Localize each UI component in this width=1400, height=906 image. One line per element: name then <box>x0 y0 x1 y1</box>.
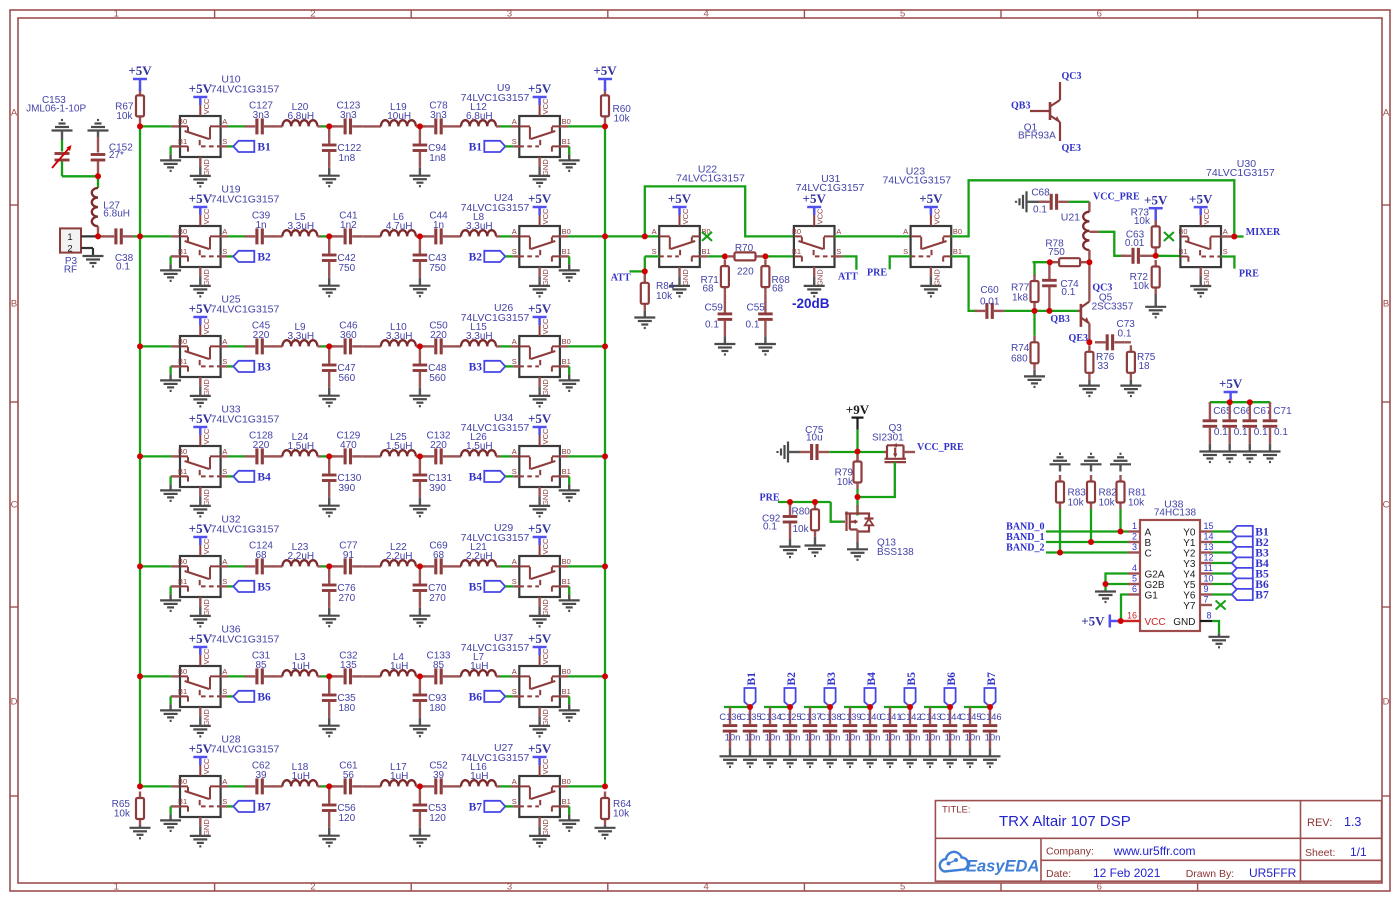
svg-text:2.2uH: 2.2uH <box>386 551 413 562</box>
svg-text:74LVC1G3157: 74LVC1G3157 <box>676 173 745 185</box>
svg-text:680: 680 <box>1011 354 1028 365</box>
svg-text:B4: B4 <box>469 472 483 484</box>
svg-text:QB3: QB3 <box>1050 314 1069 325</box>
svg-text:QE3: QE3 <box>1062 143 1081 154</box>
svg-text:Y3: Y3 <box>1183 559 1196 570</box>
svg-text:www.ur5ffr.com: www.ur5ffr.com <box>1113 844 1196 858</box>
svg-text:10k: 10k <box>793 524 810 535</box>
svg-text:10n: 10n <box>745 732 761 743</box>
svg-text:D: D <box>1383 697 1390 708</box>
svg-text:BAND_2: BAND_2 <box>1006 543 1044 554</box>
svg-text:1uH: 1uH <box>390 661 408 672</box>
svg-text:D: D <box>11 697 18 708</box>
svg-text:56: 56 <box>343 770 355 781</box>
svg-text:2: 2 <box>310 9 315 20</box>
svg-text:Y5: Y5 <box>1183 580 1196 591</box>
svg-text:1n8: 1n8 <box>339 153 356 164</box>
svg-text:8: 8 <box>1207 611 1212 621</box>
svg-text:74LVC1G3157: 74LVC1G3157 <box>211 194 280 206</box>
svg-text:74LVC1G3157: 74LVC1G3157 <box>461 92 530 104</box>
svg-text:6.8uH: 6.8uH <box>287 111 314 122</box>
svg-text:C134: C134 <box>759 712 781 722</box>
svg-text:C142: C142 <box>899 712 921 722</box>
svg-text:B5: B5 <box>469 582 483 594</box>
svg-text:0.01: 0.01 <box>1125 238 1145 249</box>
svg-text:PRE: PRE <box>1239 269 1259 280</box>
svg-text:B1: B1 <box>469 142 483 154</box>
svg-text:10k: 10k <box>1133 281 1150 292</box>
svg-text:91: 91 <box>343 550 355 561</box>
svg-text:10n: 10n <box>945 732 961 743</box>
svg-text:-20dB: -20dB <box>792 296 830 311</box>
svg-text:10k: 10k <box>116 111 133 122</box>
svg-text:10n: 10n <box>865 732 881 743</box>
svg-text:120: 120 <box>429 813 446 824</box>
svg-text:220: 220 <box>253 440 270 451</box>
svg-text:BAND_1: BAND_1 <box>1006 532 1044 543</box>
svg-text:BAND_0: BAND_0 <box>1006 522 1044 533</box>
svg-text:Y2: Y2 <box>1183 548 1196 559</box>
svg-text:10k: 10k <box>114 809 131 820</box>
svg-text:Date:: Date: <box>1046 868 1071 880</box>
svg-text:270: 270 <box>429 593 446 604</box>
svg-text:180: 180 <box>429 703 446 714</box>
svg-text:B7: B7 <box>1255 590 1269 602</box>
svg-text:6: 6 <box>1097 9 1102 20</box>
svg-text:0.1: 0.1 <box>1254 427 1268 438</box>
svg-text:6: 6 <box>1132 584 1137 594</box>
svg-text:18: 18 <box>1139 361 1151 372</box>
svg-text:C140: C140 <box>859 712 881 722</box>
svg-text:39: 39 <box>433 770 445 781</box>
svg-text:74HC138: 74HC138 <box>1154 508 1197 519</box>
svg-text:74LVC1G3157: 74LVC1G3157 <box>882 175 951 187</box>
svg-text:0.1: 0.1 <box>763 522 777 533</box>
svg-text:+9V: +9V <box>846 402 870 417</box>
svg-text:SI2301: SI2301 <box>872 433 904 444</box>
svg-text:7: 7 <box>1204 595 1209 605</box>
svg-text:10n: 10n <box>885 732 901 743</box>
svg-text:33: 33 <box>1098 361 1110 372</box>
svg-text:1: 1 <box>114 882 119 893</box>
svg-text:C60: C60 <box>980 285 999 296</box>
svg-text:10n: 10n <box>725 732 741 743</box>
svg-text:74LVC1G3157: 74LVC1G3157 <box>461 752 530 764</box>
svg-text:B4: B4 <box>257 472 271 484</box>
svg-text:39: 39 <box>255 770 267 781</box>
svg-text:74LVC1G3157: 74LVC1G3157 <box>461 202 530 214</box>
svg-text:10uH: 10uH <box>387 111 411 122</box>
svg-text:220: 220 <box>430 440 447 451</box>
svg-text:1k8: 1k8 <box>1012 293 1029 304</box>
svg-text:15: 15 <box>1204 521 1214 531</box>
svg-text:1.3: 1.3 <box>1344 815 1361 829</box>
svg-text:10k: 10k <box>1134 216 1151 227</box>
svg-text:68: 68 <box>703 284 715 295</box>
svg-text:1n8: 1n8 <box>429 153 446 164</box>
svg-text:R80: R80 <box>792 506 811 517</box>
svg-text:390: 390 <box>339 483 356 494</box>
svg-text:4: 4 <box>703 882 708 893</box>
svg-text:3n3: 3n3 <box>340 110 357 121</box>
svg-text:RF: RF <box>64 265 77 276</box>
svg-text:QB3: QB3 <box>1011 101 1030 112</box>
svg-text:10k: 10k <box>614 113 631 124</box>
svg-text:Y4: Y4 <box>1183 569 1196 580</box>
svg-text:74LVC1G3157: 74LVC1G3157 <box>211 524 280 536</box>
svg-text:C136: C136 <box>719 712 741 722</box>
svg-text:6.8uH: 6.8uH <box>103 208 130 219</box>
svg-text:G2B: G2B <box>1145 580 1165 591</box>
svg-text:10: 10 <box>1204 574 1214 584</box>
svg-text:10n: 10n <box>765 732 781 743</box>
svg-text:C: C <box>1145 548 1152 559</box>
svg-text:B3: B3 <box>257 362 271 374</box>
svg-text:74LVC1G3157: 74LVC1G3157 <box>461 642 530 654</box>
svg-text:3n3: 3n3 <box>253 110 270 121</box>
svg-text:0.1: 0.1 <box>116 262 130 273</box>
svg-text:74LVC1G3157: 74LVC1G3157 <box>211 84 280 96</box>
svg-text:1: 1 <box>114 9 119 20</box>
svg-text:750: 750 <box>429 263 446 274</box>
svg-text:Company:: Company: <box>1046 845 1094 857</box>
svg-text:QE3: QE3 <box>1069 333 1088 344</box>
svg-text:1uH: 1uH <box>470 771 488 782</box>
svg-text:B: B <box>1383 299 1389 310</box>
svg-text:1.5uH: 1.5uH <box>466 441 493 452</box>
svg-text:390: 390 <box>429 483 446 494</box>
svg-text:0.1: 0.1 <box>705 320 719 331</box>
svg-text:1: 1 <box>1132 521 1137 531</box>
svg-text:1: 1 <box>67 232 72 243</box>
svg-text:3n3: 3n3 <box>430 110 447 121</box>
svg-text:68: 68 <box>433 550 445 561</box>
svg-text:TITLE:: TITLE: <box>942 805 971 816</box>
svg-text:Y0: Y0 <box>1183 527 1196 538</box>
svg-text:VCC_PRE: VCC_PRE <box>917 442 964 453</box>
svg-text:B5: B5 <box>257 582 271 594</box>
svg-text:C55: C55 <box>747 303 766 314</box>
svg-text:A: A <box>1145 527 1152 538</box>
svg-text:PRE: PRE <box>867 268 887 279</box>
svg-text:2: 2 <box>67 243 72 254</box>
svg-text:0.1: 0.1 <box>1214 427 1228 438</box>
svg-text:220: 220 <box>737 266 754 277</box>
svg-text:C145: C145 <box>959 712 981 722</box>
svg-text:C139: C139 <box>839 712 861 722</box>
svg-text:27*: 27* <box>109 150 124 161</box>
svg-text:REV:: REV: <box>1307 817 1332 829</box>
svg-text:1uH: 1uH <box>292 661 310 672</box>
svg-text:74LVC1G3157: 74LVC1G3157 <box>211 634 280 646</box>
svg-text:B2: B2 <box>257 252 271 264</box>
svg-text:10n: 10n <box>905 732 921 743</box>
svg-text:B1: B1 <box>746 672 758 686</box>
svg-text:BSS138: BSS138 <box>877 547 914 558</box>
svg-text:0.1: 0.1 <box>1033 204 1047 215</box>
svg-text:10n: 10n <box>965 732 981 743</box>
svg-text:3.3uH: 3.3uH <box>386 331 413 342</box>
svg-text:3.3uH: 3.3uH <box>466 221 493 232</box>
svg-text:0.1: 0.1 <box>1061 287 1075 298</box>
svg-text:B6: B6 <box>257 692 271 704</box>
svg-text:C137: C137 <box>799 712 821 722</box>
svg-text:C125: C125 <box>779 712 801 722</box>
svg-text:C146: C146 <box>979 712 1001 722</box>
svg-text:12: 12 <box>1204 553 1214 563</box>
svg-text:1n: 1n <box>433 220 444 231</box>
svg-text:220: 220 <box>430 330 447 341</box>
svg-text:TRX Altair 107 DSP: TRX Altair 107 DSP <box>999 813 1131 830</box>
svg-text:4.7uH: 4.7uH <box>386 221 413 232</box>
svg-text:3.3uH: 3.3uH <box>287 331 314 342</box>
svg-text:0.1: 0.1 <box>746 320 760 331</box>
svg-text:10n: 10n <box>925 732 941 743</box>
svg-text:74LVC1G3157: 74LVC1G3157 <box>461 312 530 324</box>
svg-text:UR5FFR: UR5FFR <box>1249 866 1297 880</box>
svg-text:120: 120 <box>339 813 356 824</box>
svg-text:3.3uH: 3.3uH <box>287 221 314 232</box>
svg-text:B3: B3 <box>826 672 838 686</box>
svg-text:10n: 10n <box>785 732 801 743</box>
svg-text:560: 560 <box>339 373 356 384</box>
svg-text:10k: 10k <box>613 809 630 820</box>
svg-text:74LVC1G3157: 74LVC1G3157 <box>211 744 280 756</box>
svg-text:B3: B3 <box>469 362 483 374</box>
svg-text:EasyEDA: EasyEDA <box>966 858 1039 876</box>
svg-text:10u: 10u <box>806 433 823 444</box>
svg-text:9: 9 <box>1204 584 1209 594</box>
svg-text:14: 14 <box>1204 532 1214 542</box>
svg-text:68: 68 <box>772 284 784 295</box>
svg-text:74LVC1G3157: 74LVC1G3157 <box>211 414 280 426</box>
svg-text:5: 5 <box>900 882 905 893</box>
svg-text:1uH: 1uH <box>292 771 310 782</box>
svg-text:A: A <box>1383 108 1390 119</box>
svg-text:10k: 10k <box>837 477 854 488</box>
svg-text:B6: B6 <box>469 692 483 704</box>
svg-text:0.1: 0.1 <box>1274 427 1288 438</box>
svg-text:JML06-1-10P: JML06-1-10P <box>26 104 86 115</box>
svg-text:Drawn By:: Drawn By: <box>1186 868 1234 880</box>
svg-text:B: B <box>1145 538 1152 549</box>
svg-text:10k: 10k <box>1128 497 1145 508</box>
svg-text:4: 4 <box>703 9 708 20</box>
svg-text:Y7: Y7 <box>1183 601 1196 612</box>
svg-text:A: A <box>11 108 18 119</box>
svg-text:C141: C141 <box>879 712 901 722</box>
svg-text:0.1: 0.1 <box>1118 328 1132 339</box>
svg-text:Sheet:: Sheet: <box>1305 847 1335 859</box>
svg-text:MIXER: MIXER <box>1246 227 1281 238</box>
svg-text:360: 360 <box>340 330 357 341</box>
svg-text:85: 85 <box>433 660 445 671</box>
svg-text:B7: B7 <box>986 672 998 686</box>
svg-text:6: 6 <box>1097 882 1102 893</box>
svg-text:C59: C59 <box>705 303 724 314</box>
svg-text:11: 11 <box>1204 563 1213 573</box>
svg-text:85: 85 <box>255 660 267 671</box>
svg-text:R74: R74 <box>1011 343 1030 354</box>
svg-text:B5: B5 <box>906 672 918 686</box>
svg-text:1.5uH: 1.5uH <box>287 441 314 452</box>
svg-text:470: 470 <box>340 440 357 451</box>
svg-text:750: 750 <box>1048 247 1065 258</box>
svg-text:B: B <box>11 299 17 310</box>
svg-text:74LVC1G3157: 74LVC1G3157 <box>211 304 280 316</box>
svg-text:12 Feb 2021: 12 Feb 2021 <box>1093 866 1161 880</box>
svg-text:10n: 10n <box>845 732 861 743</box>
svg-text:2.2uH: 2.2uH <box>466 551 493 562</box>
svg-text:C71: C71 <box>1273 406 1292 417</box>
svg-text:2SC3357: 2SC3357 <box>1092 302 1134 313</box>
svg-text:C135: C135 <box>739 712 761 722</box>
svg-text:10k: 10k <box>1099 497 1116 508</box>
svg-text:220: 220 <box>253 330 270 341</box>
svg-text:+5V: +5V <box>1081 613 1105 628</box>
svg-text:C: C <box>11 500 18 511</box>
svg-text:C68: C68 <box>1031 187 1050 198</box>
svg-text:3: 3 <box>507 882 512 893</box>
svg-text:74LVC1G3157: 74LVC1G3157 <box>1206 167 1275 179</box>
svg-text:2.2uH: 2.2uH <box>287 551 314 562</box>
svg-text:B2: B2 <box>469 252 483 264</box>
svg-text:74LVC1G3157: 74LVC1G3157 <box>461 422 530 434</box>
svg-text:B7: B7 <box>469 802 483 814</box>
svg-text:10n: 10n <box>985 732 1001 743</box>
svg-text:3: 3 <box>507 9 512 20</box>
svg-text:C138: C138 <box>819 712 841 722</box>
svg-text:U21: U21 <box>1061 212 1080 224</box>
svg-text:Y6: Y6 <box>1183 590 1196 601</box>
svg-text:10n: 10n <box>805 732 821 743</box>
svg-text:135: 135 <box>340 660 357 671</box>
svg-text:C144: C144 <box>939 712 961 722</box>
svg-text:750: 750 <box>339 263 356 274</box>
svg-text:0.1: 0.1 <box>1234 427 1248 438</box>
svg-text:560: 560 <box>429 373 446 384</box>
svg-text:Y1: Y1 <box>1183 538 1196 549</box>
svg-text:BFR93A: BFR93A <box>1018 131 1056 142</box>
svg-text:10n: 10n <box>825 732 841 743</box>
svg-text:B7: B7 <box>257 802 271 814</box>
svg-text:VCC_PRE: VCC_PRE <box>1093 192 1140 203</box>
svg-text:270: 270 <box>339 593 356 604</box>
svg-text:C143: C143 <box>919 712 941 722</box>
svg-text:74LVC1G3157: 74LVC1G3157 <box>461 532 530 544</box>
svg-text:B6: B6 <box>946 672 958 686</box>
svg-text:ATT: ATT <box>611 273 631 284</box>
svg-text:3.3uH: 3.3uH <box>466 331 493 342</box>
svg-text:68: 68 <box>255 550 267 561</box>
svg-text:1uH: 1uH <box>470 661 488 672</box>
svg-text:10k: 10k <box>1068 497 1085 508</box>
svg-text:5: 5 <box>900 9 905 20</box>
svg-text:PRE: PRE <box>760 493 780 504</box>
svg-text:3: 3 <box>1132 542 1137 552</box>
svg-text:16: 16 <box>1127 611 1137 621</box>
svg-text:180: 180 <box>339 703 356 714</box>
svg-text:B2: B2 <box>786 672 798 686</box>
svg-text:1.5uH: 1.5uH <box>386 441 413 452</box>
svg-text:GND: GND <box>1173 617 1195 628</box>
svg-text:2: 2 <box>310 882 315 893</box>
svg-text:1/1: 1/1 <box>1350 845 1367 859</box>
svg-text:6.8uH: 6.8uH <box>466 111 493 122</box>
svg-text:B1: B1 <box>257 142 271 154</box>
svg-text:R70: R70 <box>735 243 754 254</box>
svg-text:ATT: ATT <box>838 272 858 283</box>
svg-text:0.01: 0.01 <box>980 296 1000 307</box>
svg-text:VCC: VCC <box>1145 617 1166 628</box>
svg-text:10k: 10k <box>656 291 673 302</box>
svg-text:QC3: QC3 <box>1062 71 1082 82</box>
svg-text:G1: G1 <box>1145 590 1159 601</box>
svg-text:5: 5 <box>1132 574 1137 584</box>
svg-text:2: 2 <box>1132 532 1137 542</box>
svg-text:B4: B4 <box>866 672 878 686</box>
svg-text:1n2: 1n2 <box>340 220 357 231</box>
svg-text:1uH: 1uH <box>390 771 408 782</box>
svg-text:G2A: G2A <box>1145 569 1165 580</box>
svg-text:13: 13 <box>1204 542 1214 552</box>
svg-text:C: C <box>1383 500 1390 511</box>
svg-text:1n: 1n <box>255 220 266 231</box>
svg-text:4: 4 <box>1132 563 1137 573</box>
